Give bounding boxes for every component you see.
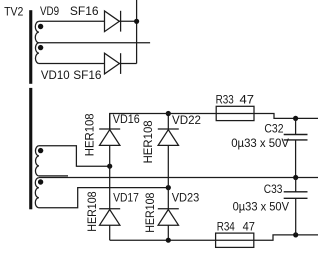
winding W4 of TV2 (lower secondary, lower half) — [35, 178, 39, 208]
diode VD17 cathode bar — [99, 208, 120, 210]
polarity dot winding W4 — [38, 179, 43, 184]
svg-text:VD17: VD17 — [113, 191, 139, 205]
capacitor C33 top plate — [284, 191, 308, 193]
svg-text:SF16: SF16 — [73, 68, 102, 82]
diode VD22 cathode bar — [158, 128, 179, 130]
resistor R34 body — [216, 233, 254, 247]
diode VD10 cathode bar — [120, 53, 122, 74]
svg-text:0µ33 x 50V: 0µ33 x 50V — [231, 136, 289, 150]
wire: C33 bottom lead — [295, 198, 297, 235]
svg-text:TV2: TV2 — [4, 5, 24, 19]
svg-text:VD23: VD23 — [172, 191, 200, 205]
wire: R34 to -output with jog — [254, 235, 318, 240]
junction dot 0V rail / capacitors midpoint — [293, 175, 298, 180]
wire: +rail from VD16 to R33 — [110, 114, 217, 130]
wire: output riser to top edge — [136, 0, 138, 64]
capacitor C32 bottom plate — [284, 139, 308, 141]
junction dot VD9/VD10 output — [134, 19, 139, 24]
wire: VD9 cathode to junction — [119, 20, 136, 22]
wire: R33 to +output with jog — [254, 114, 318, 119]
diode VD10 triangle — [105, 53, 120, 74]
wire: -rail from VD17 to R34 — [110, 239, 216, 241]
transformer TV2 core (upper) — [29, 10, 32, 84]
winding W2 of TV2 (upper secondary, VD10 side) — [35, 43, 38, 64]
diode VD23 triangle — [158, 210, 178, 226]
wire: winding W2 bottom rail to VD10 anode — [39, 63, 105, 65]
wire: VD22 cathode up to +rail junction — [167, 114, 169, 130]
svg-text:HER108: HER108 — [82, 113, 96, 156]
wire: VD17 anode down to -rail — [109, 225, 111, 240]
wire: winding W3 bottom rail (0V) — [39, 175, 68, 177]
svg-text:47: 47 — [240, 92, 255, 106]
polarity dot winding W3 — [38, 148, 43, 153]
diode VD9 triangle — [105, 11, 120, 32]
wire: VD16 cathode up to +rail — [109, 114, 111, 130]
svg-text:VD10: VD10 — [41, 68, 70, 82]
wire: VD23 anode down to -rail junction — [167, 225, 169, 240]
svg-text:VD9: VD9 — [40, 4, 59, 18]
junction dot +output / C32 top — [293, 116, 298, 121]
diode VD23 cathode bar — [158, 208, 179, 210]
wire: winding W1 top rail to VD9 anode — [39, 20, 105, 22]
wire: center 0V rail across to capacitors — [39, 177, 318, 179]
wire: winding W3 top terminal to VD16/VD17 node — [39, 146, 110, 166]
capacitor C33 bottom plate — [284, 197, 308, 199]
transformer TV2 core (lower) — [29, 88, 32, 209]
wire: center tap rail of TV2 — [39, 42, 150, 44]
svg-text:R33: R33 — [216, 92, 234, 106]
wire through R33 — [216, 113, 254, 115]
svg-text:C33: C33 — [264, 182, 283, 196]
capacitor C32 top plate — [284, 134, 308, 136]
diode VD16 triangle — [100, 130, 120, 146]
svg-text:HER108: HER108 — [85, 191, 99, 232]
diode VD22 triangle — [158, 130, 178, 146]
junction dot VD22 cathode on +rail — [166, 111, 171, 116]
diode VD16 cathode bar — [99, 128, 120, 130]
polarity dot winding W1 — [38, 24, 43, 29]
polarity dot winding W2 — [38, 45, 43, 50]
junction dot VD16 anode / VD17 cathode node — [107, 164, 112, 169]
wire: VD17 cathode up to node — [109, 166, 111, 209]
diode VD9 cathode bar — [120, 11, 122, 32]
svg-text:C32: C32 — [264, 122, 283, 136]
resistor R33 body — [216, 106, 254, 120]
wire: VD10 cathode to riser corner — [119, 63, 136, 65]
svg-text:HER108: HER108 — [143, 192, 157, 233]
winding W3 of TV2 (lower secondary, upper half) — [35, 146, 38, 176]
wire: winding W4 bottom terminal to VD22/VD23 node — [39, 188, 168, 208]
junction dot VD22 anode / VD23 cathode node — [166, 185, 171, 190]
diode VD17 triangle — [100, 210, 120, 226]
winding W1 of TV2 (upper secondary, VD9 side) — [35, 21, 39, 42]
svg-text:R34: R34 — [217, 220, 235, 234]
svg-text:VD22: VD22 — [172, 113, 201, 127]
wire: C32 bottom lead to 0V rail — [295, 140, 297, 178]
wire: VD22 anode down to node — [167, 145, 169, 187]
wire through R34 — [216, 239, 254, 241]
wire: C33 top lead — [295, 178, 297, 192]
svg-text:SF16: SF16 — [70, 4, 99, 18]
svg-text:47: 47 — [243, 220, 256, 234]
svg-text:HER108: HER108 — [141, 120, 155, 163]
wire: VD23 cathode up to node — [167, 188, 169, 209]
junction dot VD23 anode on -rail — [166, 238, 171, 243]
svg-text:0µ33 x 50V: 0µ33 x 50V — [233, 199, 289, 213]
wire: C32 top lead — [295, 118, 297, 134]
wire: VD16 anode down to node — [109, 145, 111, 166]
junction dot -output / C33 bottom — [293, 232, 298, 237]
